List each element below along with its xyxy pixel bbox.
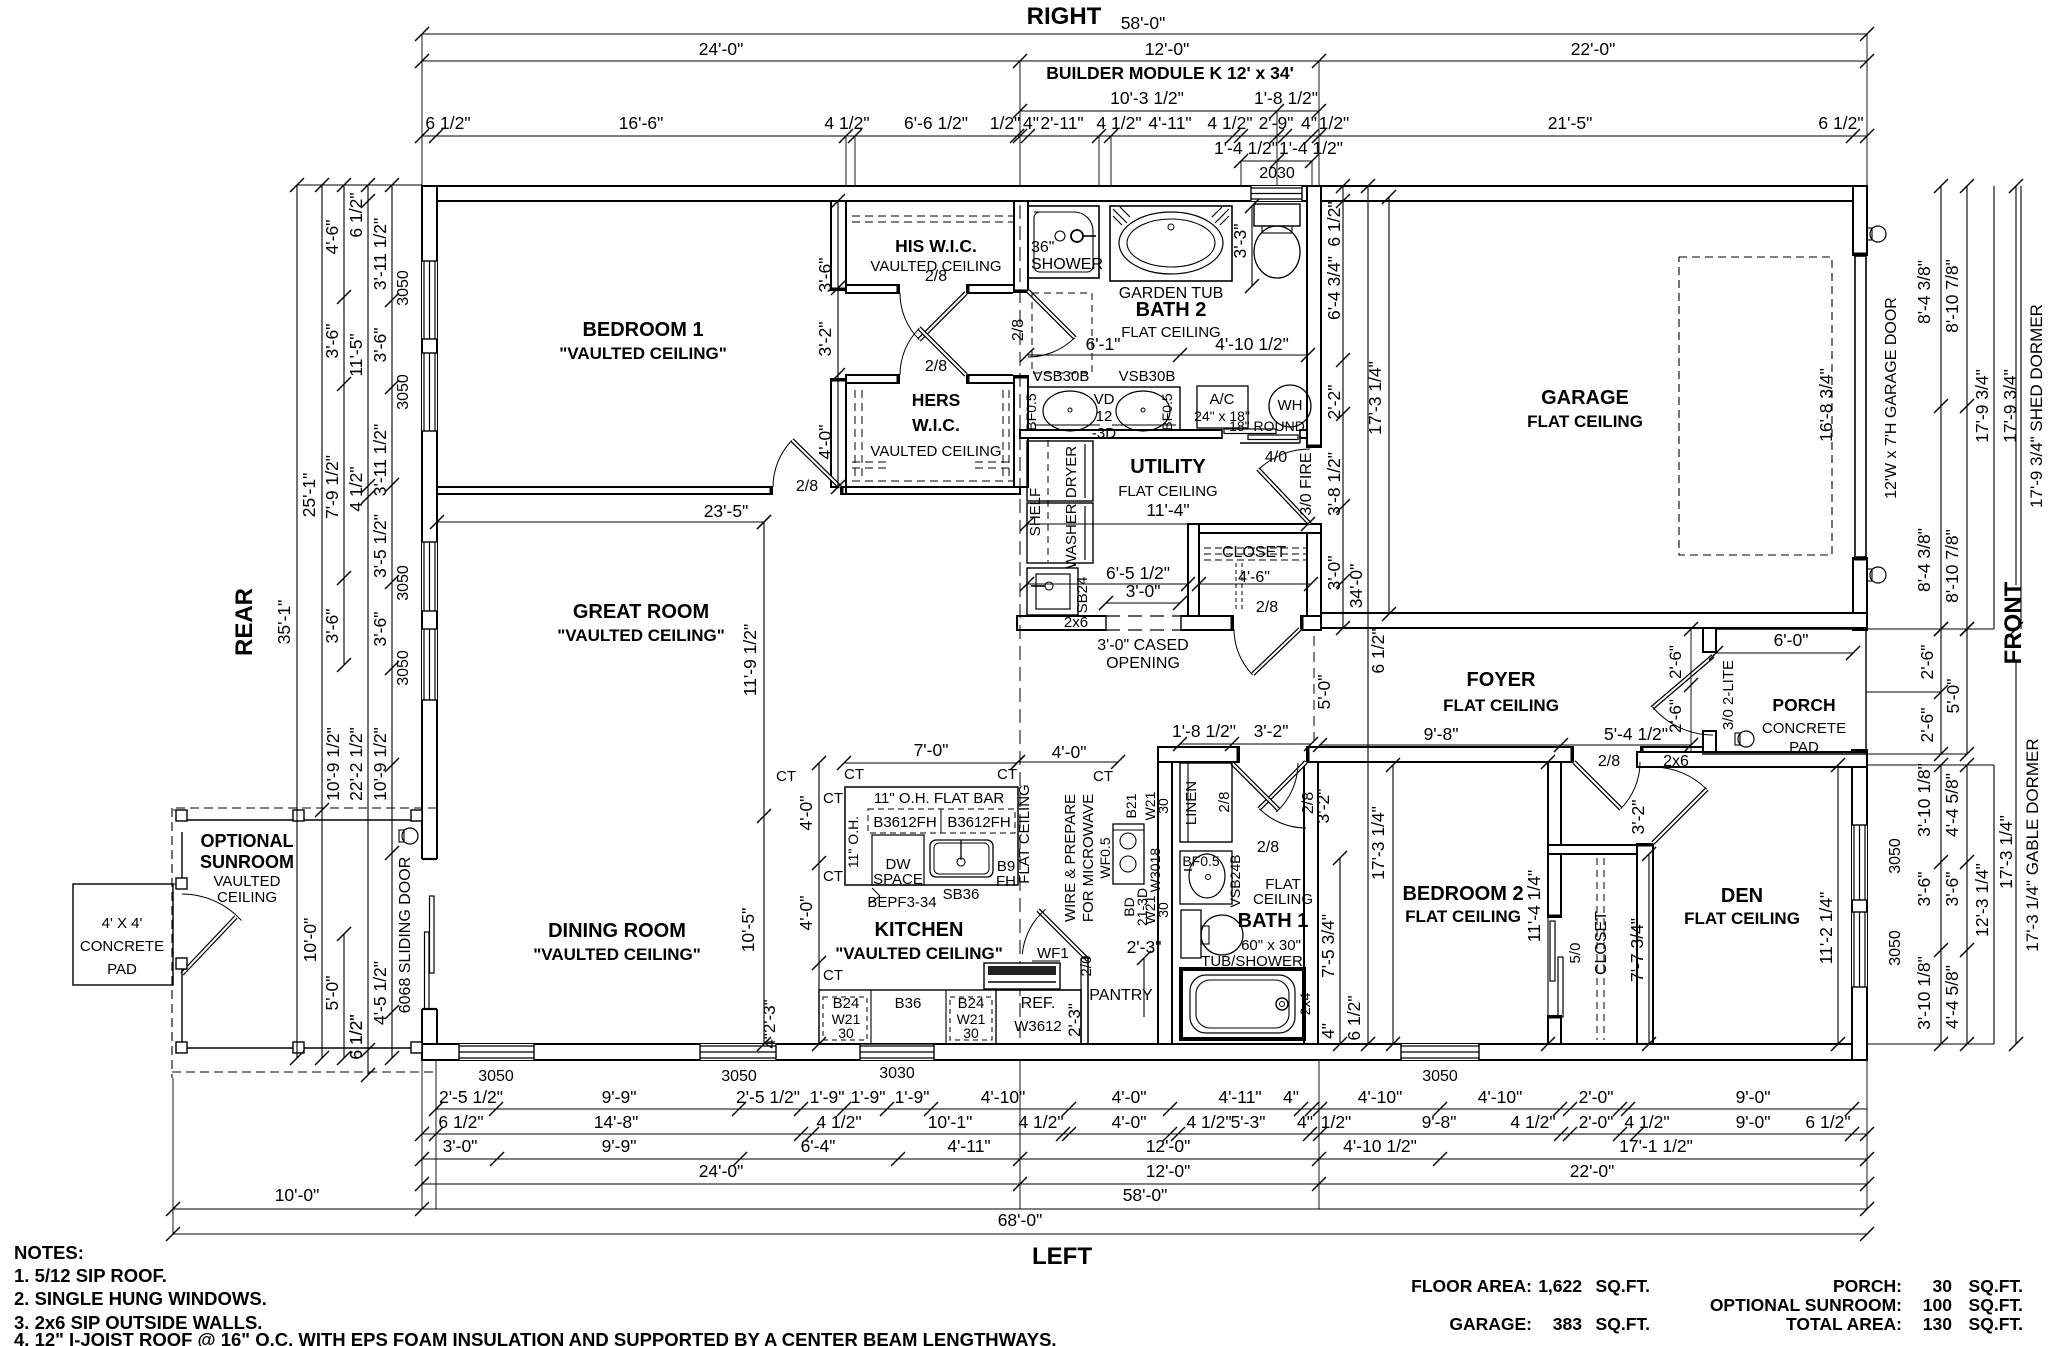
- svg-text:36": 36": [1031, 239, 1054, 256]
- svg-text:GARAGE:: GARAGE:: [1449, 1314, 1532, 1334]
- svg-text:3'-6": 3'-6": [1914, 872, 1934, 907]
- svg-text:SPACE: SPACE: [873, 871, 923, 888]
- svg-text:3050: 3050: [1887, 930, 1904, 966]
- svg-text:2/8: 2/8: [1257, 839, 1279, 856]
- svg-text:3'-6": 3'-6": [322, 324, 342, 359]
- svg-text:4'-11": 4'-11": [947, 1136, 990, 1156]
- svg-text:4'-0": 4'-0": [796, 896, 816, 931]
- svg-text:3050: 3050: [395, 374, 412, 410]
- svg-text:24'-0": 24'-0": [699, 39, 744, 59]
- svg-text:21'-5": 21'-5": [1548, 113, 1593, 133]
- svg-text:GREAT ROOM: GREAT ROOM: [573, 601, 709, 623]
- svg-text:3'-0": 3'-0": [1324, 556, 1344, 591]
- svg-text:6'-4": 6'-4": [801, 1136, 836, 1156]
- svg-text:1'-9": 1'-9": [895, 1087, 930, 1107]
- svg-text:3'-6": 3'-6": [1942, 872, 1962, 907]
- svg-text:9'-0": 9'-0": [1736, 1087, 1771, 1107]
- svg-text:3'-5 1/2": 3'-5 1/2": [370, 514, 390, 578]
- svg-text:6 1/2": 6 1/2": [346, 1014, 366, 1059]
- svg-text:2. SINGLE HUNG WINDOWS.: 2. SINGLE HUNG WINDOWS.: [14, 1288, 267, 1309]
- svg-text:CEILING: CEILING: [1253, 891, 1313, 908]
- svg-text:8'-10 7/8": 8'-10 7/8": [1942, 259, 1962, 333]
- svg-text:100: 100: [1923, 1295, 1952, 1315]
- svg-text:4"2'-3": 4"2'-3": [760, 999, 779, 1048]
- svg-text:2'-2": 2'-2": [1324, 385, 1344, 420]
- svg-text:B24: B24: [833, 995, 860, 1012]
- svg-text:30: 30: [1933, 1276, 1953, 1296]
- svg-text:3050: 3050: [395, 650, 412, 686]
- svg-text:2/8: 2/8: [925, 268, 947, 285]
- svg-text:BUILDER MODULE K 12' x 34': BUILDER MODULE K 12' x 34': [1046, 63, 1294, 83]
- svg-text:5'-0": 5'-0": [1314, 675, 1334, 710]
- svg-text:12'-0": 12'-0": [1145, 39, 1190, 59]
- svg-text:17'-1 1/2": 17'-1 1/2": [1619, 1136, 1693, 1156]
- svg-text:WF0.5: WF0.5: [1097, 837, 1113, 878]
- svg-text:FLAT CEILING: FLAT CEILING: [1684, 909, 1800, 928]
- svg-text:2/8: 2/8: [1300, 792, 1317, 814]
- svg-text:OPTIONAL: OPTIONAL: [201, 831, 294, 851]
- svg-text:WH: WH: [1278, 397, 1303, 414]
- svg-text:VD: VD: [1094, 391, 1115, 408]
- svg-text:B36: B36: [895, 995, 922, 1012]
- svg-text:5/0: 5/0: [1567, 943, 1584, 964]
- svg-text:11'-5": 11'-5": [346, 333, 366, 376]
- svg-text:4": 4": [1297, 1112, 1313, 1132]
- svg-text:SB36: SB36: [943, 886, 980, 903]
- svg-text:2'-0": 2'-0": [1579, 1112, 1614, 1132]
- svg-text:17'-9 3/4": 17'-9 3/4": [1972, 369, 1992, 443]
- svg-text:3'-3": 3'-3": [1230, 224, 1250, 259]
- svg-text:BATH 2: BATH 2: [1136, 299, 1207, 321]
- svg-text:SQ.FT.: SQ.FT.: [1596, 1314, 1650, 1334]
- svg-text:3050: 3050: [721, 1068, 757, 1085]
- svg-text:1/2": 1/2": [1319, 113, 1350, 133]
- svg-text:4'-11": 4'-11": [1218, 1087, 1261, 1107]
- svg-text:34'-0": 34'-0": [1346, 564, 1366, 609]
- svg-text:VAULTED: VAULTED: [214, 873, 281, 890]
- svg-text:UTILITY: UTILITY: [1130, 456, 1206, 478]
- svg-text:22'-0": 22'-0": [1571, 39, 1616, 59]
- svg-text:6 1/2": 6 1/2": [438, 1112, 483, 1132]
- svg-text:-3D: -3D: [1092, 425, 1116, 442]
- svg-text:2x4: 2x4: [1297, 993, 1313, 1016]
- svg-text:2/8: 2/8: [1010, 319, 1027, 341]
- svg-text:4 1/2": 4 1/2": [346, 466, 366, 511]
- svg-text:4'-6": 4'-6": [322, 220, 342, 255]
- svg-text:B21: B21: [1123, 793, 1139, 818]
- svg-text:BF0.5: BF0.5: [1023, 393, 1039, 431]
- svg-text:HIS W.I.C.: HIS W.I.C.: [895, 236, 977, 256]
- svg-text:17'-9 3/4" SHED DORMER: 17'-9 3/4" SHED DORMER: [2027, 304, 2046, 508]
- svg-text:17'-3 1/4": 17'-3 1/4": [1996, 815, 2016, 889]
- svg-text:22'-2 1/2": 22'-2 1/2": [346, 727, 366, 801]
- svg-text:4' X 4': 4' X 4': [102, 915, 143, 932]
- svg-text:6 1/2": 6 1/2": [1324, 201, 1344, 246]
- svg-text:2/8: 2/8: [1216, 792, 1233, 813]
- svg-text:10'-0": 10'-0": [300, 918, 320, 963]
- svg-text:TOTAL AREA:: TOTAL AREA:: [1786, 1314, 1902, 1334]
- svg-text:3'-6": 3'-6": [815, 258, 835, 293]
- svg-text:BF0.5: BF0.5: [1159, 393, 1175, 431]
- svg-text:24'-0": 24'-0": [699, 1161, 744, 1181]
- svg-text:FLAT CEILING: FLAT CEILING: [1016, 784, 1033, 883]
- svg-text:4/0: 4/0: [1265, 449, 1287, 466]
- svg-text:6 1/2": 6 1/2": [346, 192, 366, 237]
- svg-text:6 1/2": 6 1/2": [1818, 113, 1863, 133]
- svg-text:3050: 3050: [395, 565, 412, 601]
- svg-text:2'-11": 2'-11": [1040, 113, 1083, 133]
- svg-text:1'-8 1/2": 1'-8 1/2": [1254, 88, 1318, 108]
- svg-text:RIGHT: RIGHT: [1027, 3, 1102, 30]
- svg-text:PAD: PAD: [107, 961, 137, 978]
- svg-text:6 1/2": 6 1/2": [1368, 628, 1388, 673]
- svg-text:22'-0": 22'-0": [1570, 1161, 1615, 1181]
- svg-text:LINEN: LINEN: [1183, 781, 1200, 825]
- svg-text:3050: 3050: [395, 270, 412, 306]
- svg-text:12'-0": 12'-0": [1146, 1136, 1191, 1156]
- svg-text:16'-8 3/4": 16'-8 3/4": [1816, 368, 1836, 442]
- svg-text:4 1/2": 4 1/2": [1018, 1112, 1063, 1132]
- svg-text:12'-0": 12'-0": [1146, 1161, 1191, 1181]
- svg-text:2'-5 1/2": 2'-5 1/2": [736, 1087, 800, 1107]
- svg-text:4'-11": 4'-11": [1148, 113, 1191, 133]
- svg-text:BATH 1: BATH 1: [1238, 910, 1309, 932]
- svg-text:4'-10": 4'-10": [981, 1087, 1026, 1107]
- svg-text:WF1: WF1: [1037, 945, 1069, 962]
- svg-text:1,622: 1,622: [1538, 1276, 1582, 1296]
- svg-text:7'-0": 7'-0": [914, 740, 949, 760]
- svg-text:FLAT CEILING: FLAT CEILING: [1121, 324, 1220, 341]
- svg-text:SB24: SB24: [1074, 577, 1091, 614]
- svg-text:9'-8": 9'-8": [1422, 1112, 1457, 1132]
- svg-text:11" O.H. FLAT BAR: 11" O.H. FLAT BAR: [874, 790, 1005, 807]
- svg-text:"VAULTED CEILING": "VAULTED CEILING": [533, 945, 701, 964]
- svg-text:6 1/2": 6 1/2": [425, 113, 470, 133]
- svg-text:WIRE & PREPARE: WIRE & PREPARE: [1062, 794, 1079, 922]
- svg-text:6'-6 1/2": 6'-6 1/2": [904, 113, 968, 133]
- svg-text:4'-0": 4'-0": [1112, 1087, 1147, 1107]
- svg-text:383: 383: [1553, 1314, 1582, 1334]
- svg-text:SHELF: SHELF: [1027, 488, 1044, 536]
- svg-text:3'-2": 3'-2": [1628, 800, 1648, 835]
- svg-text:6 1/2": 6 1/2": [1344, 995, 1364, 1040]
- svg-text:6068 SLIDING DOOR: 6068 SLIDING DOOR: [397, 857, 414, 1014]
- svg-text:4'-5 1/2": 4'-5 1/2": [370, 961, 390, 1025]
- svg-text:6 1/2": 6 1/2": [1805, 1112, 1850, 1132]
- svg-text:3/0 2-LITE: 3/0 2-LITE: [1720, 660, 1737, 730]
- svg-text:11'-4": 11'-4": [1146, 500, 1189, 520]
- svg-text:2'-9": 2'-9": [1259, 113, 1294, 133]
- svg-text:2'-3": 2'-3": [1065, 1003, 1084, 1037]
- svg-text:CT: CT: [823, 868, 843, 885]
- svg-text:FOYER: FOYER: [1467, 669, 1536, 691]
- svg-text:PORCH: PORCH: [1772, 695, 1835, 715]
- svg-text:9'-8": 9'-8": [1424, 724, 1459, 744]
- svg-text:4'-4 5/8": 4'-4 5/8": [1942, 965, 1962, 1029]
- svg-text:3050: 3050: [478, 1068, 514, 1085]
- svg-text:BF0.5: BF0.5: [1182, 853, 1220, 869]
- svg-text:4 1/2": 4 1/2": [824, 113, 869, 133]
- svg-text:12'W x 7'H GARAGE DOOR: 12'W x 7'H GARAGE DOOR: [1883, 297, 1900, 499]
- svg-text:4'-10": 4'-10": [1358, 1087, 1403, 1107]
- svg-text:2'-6": 2'-6": [1666, 699, 1685, 733]
- svg-text:4. 12" I-JOIST ROOF @ 16" O.C.: 4. 12" I-JOIST ROOF @ 16" O.C. WITH EPS …: [14, 1329, 1057, 1346]
- svg-text:4'-0": 4'-0": [1052, 742, 1087, 762]
- svg-text:DINING ROOM: DINING ROOM: [548, 920, 686, 942]
- svg-text:3'-11 1/2": 3'-11 1/2": [370, 424, 390, 496]
- svg-text:2'-6": 2'-6": [1917, 645, 1937, 680]
- svg-text:3'-6": 3'-6": [370, 612, 390, 647]
- svg-text:CT: CT: [776, 768, 796, 785]
- svg-text:REF.: REF.: [1021, 995, 1056, 1012]
- svg-text:CT: CT: [997, 766, 1017, 783]
- svg-text:8'-4 3/8": 8'-4 3/8": [1914, 260, 1934, 324]
- svg-text:3'-10 1/8": 3'-10 1/8": [1914, 763, 1934, 837]
- svg-text:FLAT CEILING: FLAT CEILING: [1443, 696, 1559, 715]
- svg-text:CLOSET: CLOSET: [1222, 544, 1286, 561]
- svg-text:2'-0": 2'-0": [1579, 1087, 1614, 1107]
- svg-text:W3018: W3018: [1147, 848, 1163, 893]
- svg-text:2'-5 1/2": 2'-5 1/2": [439, 1087, 503, 1107]
- svg-text:SUNROOM: SUNROOM: [200, 852, 294, 872]
- svg-text:BEDROOM 2: BEDROOM 2: [1402, 883, 1523, 905]
- svg-text:W.I.C.: W.I.C.: [912, 415, 960, 435]
- svg-text:SQ.FT.: SQ.FT.: [1969, 1295, 2023, 1315]
- svg-text:10'-0": 10'-0": [275, 1185, 320, 1205]
- svg-text:PAD: PAD: [1789, 739, 1819, 756]
- svg-text:VSB30B: VSB30B: [1119, 368, 1176, 385]
- svg-text:4 1/2": 4 1/2": [1510, 1112, 1555, 1132]
- svg-text:5'-0": 5'-0": [1943, 679, 1963, 714]
- svg-text:CONCRETE: CONCRETE: [1762, 720, 1846, 737]
- svg-text:CT: CT: [823, 790, 843, 807]
- svg-text:4": 4": [1283, 1087, 1299, 1107]
- svg-text:58'-0": 58'-0": [1123, 1185, 1168, 1205]
- svg-text:2/8: 2/8: [1598, 753, 1620, 770]
- svg-text:7'-7 3/4": 7'-7 3/4": [1627, 918, 1647, 982]
- svg-text:6'-4 3/4": 6'-4 3/4": [1324, 256, 1344, 320]
- svg-text:1'-8 1/2": 1'-8 1/2": [1172, 721, 1236, 741]
- svg-text:10'-3 1/2": 10'-3 1/2": [1110, 88, 1184, 108]
- svg-text:11" O.H.: 11" O.H.: [845, 816, 861, 868]
- svg-text:BEDROOM 1: BEDROOM 1: [582, 319, 703, 341]
- svg-text:30: 30: [1155, 902, 1171, 918]
- svg-text:4'-10": 4'-10": [1478, 1087, 1523, 1107]
- svg-text:2x6: 2x6: [1663, 753, 1689, 770]
- svg-text:23'-5": 23'-5": [704, 501, 749, 521]
- svg-text:17'-3 1/4": 17'-3 1/4": [1368, 806, 1388, 880]
- svg-text:17'-9 3/4": 17'-9 3/4": [2000, 369, 2020, 443]
- svg-text:35'-1": 35'-1": [274, 600, 294, 645]
- svg-text:3030: 3030: [879, 1065, 915, 1082]
- svg-text:6'-0": 6'-0": [1774, 630, 1809, 650]
- svg-text:FOR MICROWAVE: FOR MICROWAVE: [1080, 794, 1097, 922]
- svg-text:10'-1": 10'-1": [928, 1112, 973, 1132]
- svg-text:3050: 3050: [1422, 1068, 1458, 1085]
- svg-text:4 1/2": 4 1/2": [1207, 113, 1252, 133]
- svg-text:4 1/2": 4 1/2": [1096, 113, 1141, 133]
- svg-text:SHOWER: SHOWER: [1031, 256, 1103, 273]
- svg-text:6'-1": 6'-1": [1086, 334, 1121, 354]
- svg-text:1. 5/12 SIP ROOF.: 1. 5/12 SIP ROOF.: [14, 1265, 167, 1286]
- svg-text:SQ.FT.: SQ.FT.: [1596, 1276, 1650, 1296]
- svg-text:"VAULTED CEILING": "VAULTED CEILING": [559, 344, 727, 363]
- svg-text:11'-4 1/4": 11'-4 1/4": [1524, 870, 1544, 942]
- svg-text:B24: B24: [958, 995, 985, 1012]
- svg-text:CLOSET: CLOSET: [1593, 911, 1610, 975]
- svg-text:LEFT: LEFT: [1032, 1243, 1092, 1270]
- svg-text:SQ.FT.: SQ.FT.: [1969, 1276, 2023, 1296]
- svg-text:VAULTED CEILING: VAULTED CEILING: [870, 443, 1001, 460]
- svg-text:CONCRETE: CONCRETE: [80, 938, 164, 955]
- svg-text:5'-0": 5'-0": [322, 976, 342, 1011]
- svg-text:BEPF3-34: BEPF3-34: [867, 894, 936, 911]
- svg-text:18" ROUND: 18" ROUND: [1229, 418, 1305, 434]
- svg-text:REAR: REAR: [231, 588, 258, 656]
- svg-text:6'-5 1/2": 6'-5 1/2": [1106, 563, 1170, 583]
- svg-text:DRYER: DRYER: [1063, 446, 1080, 498]
- svg-text:2/0: 2/0: [1078, 956, 1095, 977]
- svg-text:SQ.FT.: SQ.FT.: [1969, 1314, 2023, 1334]
- svg-text:8'-4 3/8": 8'-4 3/8": [1914, 528, 1934, 592]
- svg-text:130: 130: [1923, 1314, 1952, 1334]
- svg-text:9'-9": 9'-9": [602, 1087, 637, 1107]
- svg-text:58'-0": 58'-0": [1121, 13, 1166, 33]
- svg-text:9'-0": 9'-0": [1736, 1112, 1771, 1132]
- svg-text:PORCH:: PORCH:: [1833, 1276, 1902, 1296]
- svg-text:16'-6": 16'-6": [619, 113, 664, 133]
- svg-text:68'-0": 68'-0": [998, 1210, 1043, 1230]
- svg-text:4'-0": 4'-0": [796, 796, 816, 831]
- svg-text:HERS: HERS: [912, 390, 961, 410]
- svg-text:3050: 3050: [1887, 838, 1904, 874]
- svg-text:DEN: DEN: [1721, 885, 1763, 907]
- svg-text:2'-3": 2'-3": [1127, 937, 1162, 957]
- svg-text:3/0 FIRE: 3/0 FIRE: [1298, 452, 1315, 515]
- svg-text:14'-8": 14'-8": [594, 1112, 639, 1132]
- svg-text:W3612: W3612: [1014, 1018, 1062, 1035]
- svg-text:KITCHEN: KITCHEN: [875, 919, 964, 941]
- svg-text:A/C: A/C: [1209, 391, 1234, 408]
- svg-text:1'-4 1/2": 1'-4 1/2": [1214, 138, 1278, 158]
- svg-text:CT: CT: [823, 967, 843, 984]
- svg-text:2x6: 2x6: [1064, 614, 1088, 631]
- svg-text:2'-6": 2'-6": [1917, 708, 1937, 743]
- svg-text:3'-0": 3'-0": [1126, 581, 1161, 601]
- svg-text:3'-6": 3'-6": [370, 328, 390, 363]
- svg-text:4 1/2": 4 1/2": [1624, 1112, 1669, 1132]
- svg-text:4 1/2": 4 1/2": [816, 1112, 861, 1132]
- svg-text:NOTES:: NOTES:: [14, 1242, 84, 1263]
- svg-text:2/8: 2/8: [796, 478, 818, 495]
- svg-text:4": 4": [1301, 113, 1317, 133]
- svg-text:10'-9 1/2": 10'-9 1/2": [370, 727, 390, 801]
- svg-text:1/2": 1/2": [990, 113, 1021, 133]
- svg-text:7'-9 1/2": 7'-9 1/2": [322, 455, 342, 519]
- svg-text:30: 30: [838, 1025, 854, 1041]
- svg-text:CEILING: CEILING: [217, 889, 277, 906]
- svg-text:30: 30: [963, 1025, 979, 1041]
- svg-text:3'-0" CASED: 3'-0" CASED: [1097, 637, 1188, 654]
- svg-text:17'-3 1/4": 17'-3 1/4": [1365, 361, 1385, 435]
- svg-text:2'-6": 2'-6": [1666, 645, 1685, 679]
- svg-text:WASHER: WASHER: [1063, 503, 1080, 568]
- svg-text:5'-4 1/2": 5'-4 1/2": [1604, 724, 1668, 744]
- svg-text:4'-10 1/2": 4'-10 1/2": [1343, 1136, 1417, 1156]
- svg-text:3'-2": 3'-2": [815, 322, 835, 357]
- svg-text:3'-11 1/2": 3'-11 1/2": [370, 218, 390, 290]
- svg-text:10'-5": 10'-5": [738, 908, 758, 953]
- svg-text:4'-10 1/2": 4'-10 1/2": [1215, 334, 1289, 354]
- svg-text:25'-1": 25'-1": [299, 473, 319, 518]
- svg-text:1'-9": 1'-9": [851, 1087, 886, 1107]
- svg-text:12'-3 1/4": 12'-3 1/4": [1972, 863, 1992, 937]
- svg-text:3'-6": 3'-6": [322, 609, 342, 644]
- svg-text:FLAT CEILING: FLAT CEILING: [1527, 412, 1643, 431]
- svg-text:CT: CT: [1093, 768, 1113, 785]
- svg-text:4'-0": 4'-0": [815, 425, 835, 460]
- svg-text:VSB24B: VSB24B: [1227, 855, 1243, 908]
- svg-text:5'-3": 5'-3": [1231, 1112, 1266, 1132]
- svg-text:B3612FH: B3612FH: [947, 814, 1010, 831]
- svg-text:10'-9 1/2": 10'-9 1/2": [323, 727, 343, 801]
- svg-text:3'-0": 3'-0": [443, 1136, 478, 1156]
- svg-text:VSB30B: VSB30B: [1033, 368, 1090, 385]
- svg-text:17'-3 1/4" GABLE DORMER: 17'-3 1/4" GABLE DORMER: [2023, 738, 2042, 951]
- svg-text:GARAGE: GARAGE: [1541, 387, 1629, 409]
- svg-text:3'-8 1/2": 3'-8 1/2": [1324, 452, 1344, 516]
- svg-text:9'-9": 9'-9": [602, 1136, 637, 1156]
- svg-text:FLOOR AREA:: FLOOR AREA:: [1411, 1276, 1532, 1296]
- svg-text:1'-4 1/2": 1'-4 1/2": [1279, 138, 1343, 158]
- svg-text:8'-10 7/8": 8'-10 7/8": [1942, 529, 1962, 603]
- svg-text:OPTIONAL SUNROOM:: OPTIONAL SUNROOM:: [1710, 1295, 1902, 1315]
- svg-text:30: 30: [1155, 798, 1171, 814]
- svg-text:3'-2": 3'-2": [1254, 721, 1289, 741]
- svg-text:TUB/SHOWER: TUB/SHOWER: [1201, 953, 1303, 970]
- svg-text:CT: CT: [844, 766, 864, 783]
- svg-text:1'-9": 1'-9": [810, 1087, 845, 1107]
- svg-text:FLAT CEILING: FLAT CEILING: [1118, 483, 1217, 500]
- svg-text:"VAULTED CEILING": "VAULTED CEILING": [835, 944, 1003, 963]
- svg-text:"VAULTED CEILING": "VAULTED CEILING": [557, 626, 725, 645]
- svg-text:12: 12: [1096, 408, 1113, 425]
- svg-text:11'-9 1/2": 11'-9 1/2": [740, 624, 760, 696]
- svg-text:4": 4": [1318, 1023, 1338, 1039]
- svg-text:11'-2 1/4": 11'-2 1/4": [1816, 892, 1836, 964]
- svg-text:B3612FH: B3612FH: [873, 814, 936, 831]
- svg-text:4'-4 5/8": 4'-4 5/8": [1942, 773, 1962, 837]
- svg-text:FLAT CEILING: FLAT CEILING: [1405, 907, 1521, 926]
- svg-text:4'-0": 4'-0": [1112, 1112, 1147, 1132]
- svg-text:OPENING: OPENING: [1106, 655, 1180, 672]
- svg-text:FH: FH: [996, 873, 1016, 890]
- svg-text:4 1/2": 4 1/2": [1186, 1112, 1231, 1132]
- svg-text:7'-5 3/4": 7'-5 3/4": [1318, 914, 1338, 978]
- svg-text:2/8: 2/8: [925, 358, 947, 375]
- svg-text:60" x 30": 60" x 30": [1241, 937, 1301, 954]
- svg-text:3'-10 1/8": 3'-10 1/8": [1914, 956, 1934, 1030]
- svg-text:2/8: 2/8: [1256, 599, 1278, 616]
